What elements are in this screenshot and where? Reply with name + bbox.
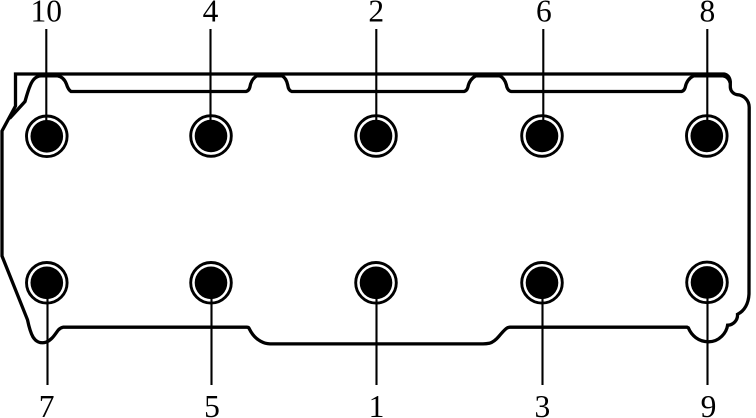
leader line bolt 10 xyxy=(45,29,47,136)
bolt 8 head xyxy=(691,120,724,153)
cylinder head outer outline xyxy=(2,74,749,344)
leader line bolt 4 xyxy=(209,29,211,136)
bolt 3 head xyxy=(526,267,559,300)
bolt 4 (ring) xyxy=(191,116,232,157)
leader line bolt 8 xyxy=(706,29,708,136)
leader line bolt 5 xyxy=(210,283,212,385)
svg-text:10: 10 xyxy=(31,0,63,29)
leader line bolt 6 xyxy=(542,29,544,136)
bolt 10 head xyxy=(31,120,64,153)
svg-text:8: 8 xyxy=(700,0,716,29)
bolt 5 head xyxy=(195,267,228,300)
cylinder head inner gasket line with humps xyxy=(10,76,731,119)
svg-text:5: 5 xyxy=(204,389,220,418)
bolt 2 head xyxy=(360,120,393,153)
svg-text:1: 1 xyxy=(369,389,385,418)
bolt 4 head xyxy=(195,120,228,153)
leader line bolt 3 xyxy=(541,283,543,385)
leader line bolt 9 xyxy=(706,283,708,385)
leader line bolt 2 xyxy=(375,29,377,136)
svg-text:9: 9 xyxy=(701,389,717,418)
bolt 1 head xyxy=(360,267,393,300)
svg-text:3: 3 xyxy=(535,389,551,418)
leader line bolt 1 xyxy=(375,283,377,385)
bolt 9 (ring) xyxy=(687,262,728,303)
bolt 5 (ring) xyxy=(191,263,232,304)
bolt 3 (ring) xyxy=(522,263,563,304)
svg-text:2: 2 xyxy=(368,0,384,29)
bolt 9 head xyxy=(691,266,724,299)
svg-text:4: 4 xyxy=(203,0,219,29)
bolt 7 head xyxy=(31,267,64,300)
bolt 10 (top row, ring) xyxy=(27,116,68,157)
bolt 8 (ring) xyxy=(687,116,728,157)
bolt 6 head xyxy=(526,120,559,153)
leader line bolt 7 xyxy=(46,283,48,385)
bolt 2 (ring) xyxy=(356,116,397,157)
svg-text:6: 6 xyxy=(536,0,552,29)
bolt 7 (bottom row, ring) xyxy=(27,263,68,304)
svg-text:7: 7 xyxy=(39,389,55,418)
bolt 1 (ring) xyxy=(356,263,397,304)
bolt 6 (ring) xyxy=(522,116,563,157)
